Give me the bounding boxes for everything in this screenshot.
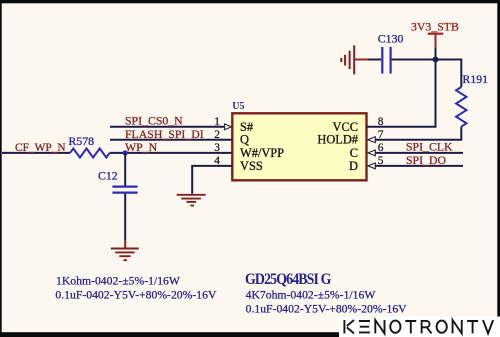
wire ground to C130: [355, 59, 368, 61]
wire WP_N (pin 3): [110, 152, 232, 154]
svg-text:0.1uF-0402-Y5V-+80%-20%-16V: 0.1uF-0402-Y5V-+80%-20%-16V: [246, 303, 408, 316]
wire C12 to ground: [124, 194, 126, 240]
ground (C130 earth, sideways): [341, 45, 354, 74]
junction 3V3_STB / C130 / R191: [433, 57, 439, 63]
capacitor C130: [382, 47, 390, 74]
svg-text:SPI_CS0_N: SPI_CS0_N: [125, 113, 183, 127]
svg-text:C130: C130: [378, 32, 404, 46]
wire CF_WP_N left segment: [2, 152, 70, 154]
wire junction to R191: [436, 60, 462, 88]
wire VSS (pin 4): [192, 166, 232, 194]
svg-text:3V3_STB: 3V3_STB: [411, 19, 459, 33]
svg-text:Q: Q: [240, 133, 249, 147]
IC U5 body: [232, 113, 366, 180]
pin 5 output triangle: [368, 163, 375, 169]
wire SPI_CLK (pin 6): [375, 152, 463, 154]
wire FLASH_SPI_DI (pin 2): [110, 139, 232, 141]
svg-text:W#/VPP: W#/VPP: [240, 146, 284, 160]
svg-text:D: D: [349, 159, 358, 173]
svg-text:4K7ohm-0402-±5%-1/16W: 4K7ohm-0402-±5%-1/16W: [246, 288, 377, 301]
junction WP_N / C12: [123, 150, 128, 155]
sheet border frame (decorative): [0, 0, 500, 3]
svg-text:WP_N: WP_N: [125, 140, 158, 154]
svg-text:R578: R578: [69, 134, 95, 148]
pin 1 input triangle: [225, 124, 232, 130]
power 3V3_STB: [428, 34, 443, 60]
wire R191 to pin 7 (HOLD#): [375, 127, 461, 140]
svg-text:HOLD#: HOLD#: [317, 133, 358, 147]
svg-text:1Kohm-0402-±5%-1/16W: 1Kohm-0402-±5%-1/16W: [56, 274, 181, 287]
svg-text:VCC: VCC: [333, 120, 358, 134]
ground (VSS): [177, 195, 206, 206]
wire VCC (pin 8) to junction: [367, 60, 436, 127]
watermark KENOTRONTV: [344, 320, 493, 333]
svg-text:C: C: [350, 146, 358, 160]
svg-text:CF_WP_N: CF_WP_N: [15, 142, 66, 154]
svg-text:S#: S#: [240, 120, 253, 134]
resistor R578: [70, 149, 110, 158]
svg-text:GD25Q64BSI G: GD25Q64BSI G: [245, 271, 332, 288]
watermark background: [339, 317, 500, 337]
wire SPI_CS0_N (pin 1): [110, 126, 225, 128]
pin 6 output triangle: [368, 150, 375, 156]
svg-text:FLASH_SPI_DI: FLASH_SPI_DI: [125, 127, 204, 141]
svg-text:C12: C12: [98, 169, 118, 183]
svg-text:R191: R191: [463, 72, 489, 86]
wire SPI_DO (pin 5): [375, 165, 463, 167]
ground (C12): [111, 249, 139, 261]
svg-text:SPI_CLK: SPI_CLK: [406, 140, 453, 154]
wire junction to C12: [124, 153, 126, 186]
svg-text:SPI_DO: SPI_DO: [406, 153, 446, 167]
svg-text:U5: U5: [232, 101, 244, 112]
wire C130 to junction: [392, 59, 436, 61]
pin 7 output triangle: [368, 137, 375, 143]
resistor R191: [456, 87, 466, 127]
svg-text:0.1uF-0402-Y5V-+80%-20%-16V: 0.1uF-0402-Y5V-+80%-20%-16V: [55, 288, 217, 301]
capacitor C12: [112, 187, 137, 193]
svg-text:VSS: VSS: [240, 159, 263, 173]
